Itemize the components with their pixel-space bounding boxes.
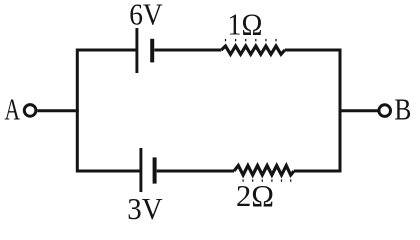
resistor R2 valley ticks [243,179,291,181]
svg-text:3V: 3V [127,191,163,226]
wire battery B2 to resistor R2 [157,170,234,173]
label 2 ohm [236,178,274,213]
terminal A [24,105,36,117]
node B label [394,91,411,126]
resistor R1 peak ticks [226,39,277,41]
wire right loop: top-right corner down to bottom-right corner [285,50,340,171]
terminal B [379,105,391,117]
svg-text:1Ω: 1Ω [227,6,262,41]
battery B2 3V short plate [153,157,157,183]
svg-text:A: A [5,92,21,127]
wire resistor R1 to top-right corner [285,49,340,52]
svg-text:2Ω: 2Ω [236,178,274,213]
resistor R2 zigzag [234,166,294,176]
svg-text:B: B [394,91,411,126]
label 1 ohm [227,6,262,41]
label 6V [129,0,163,32]
wire right rail to B terminal [340,109,378,112]
node A label [5,92,21,127]
resistor R1 zigzag [221,46,284,54]
svg-text:6V: 6V [129,0,163,32]
wire left loop: top-left corner down to bottom-left corner [77,50,141,171]
label 3V [127,191,163,226]
wire battery B1 to resistor R1 [154,49,221,52]
battery B2 3V long plate [139,148,142,192]
wire A terminal to left rail [37,109,79,112]
battery B1 6V short plate [150,39,154,63]
battery B1 6V long plate [135,28,138,73]
